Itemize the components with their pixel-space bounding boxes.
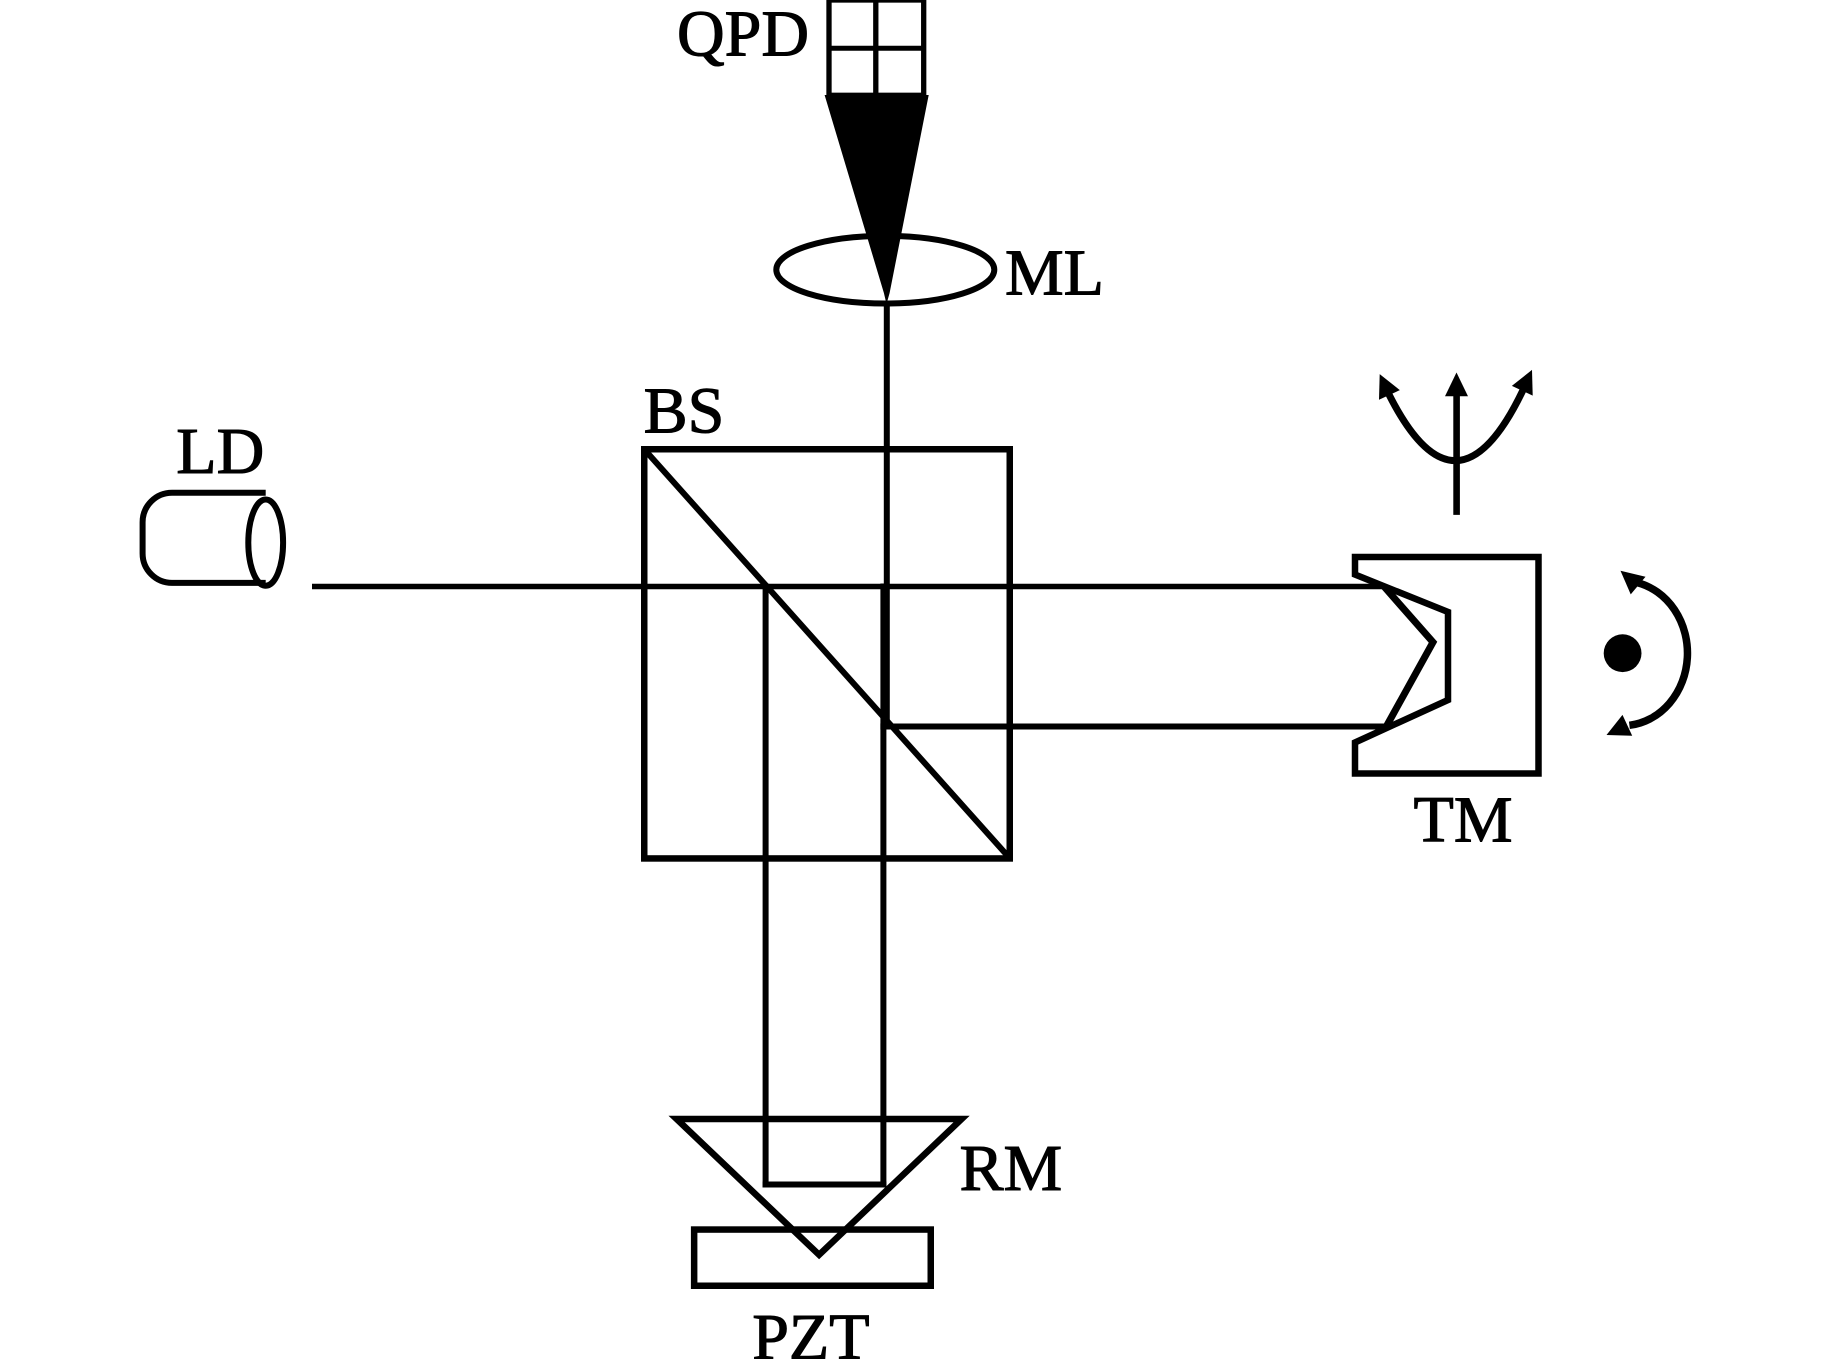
converging beam cone into QPD — [825, 95, 929, 304]
curved fork arrows above TM — [1389, 391, 1523, 461]
svg-text:LD: LD — [176, 415, 264, 488]
wire: left edge of downward beam (BS to RM) — [763, 584, 769, 1188]
QPD quadrant photodiode grid — [829, 0, 924, 95]
svg-text:RM: RM — [960, 1132, 1063, 1205]
rotation axis dot — [1604, 634, 1642, 672]
wire: lower edge of beam between BS and TM — [880, 724, 1388, 730]
svg-text:QPD: QPD — [677, 0, 809, 70]
PZT actuator block — [694, 1230, 931, 1286]
vertical arrow above TM — [1453, 394, 1460, 515]
LD cylinder end face ellipse — [248, 499, 283, 585]
wire: closing bottom edge of downward beam — [763, 1182, 887, 1188]
svg-text:ML: ML — [1005, 237, 1104, 310]
laser diode LD cylinder body — [143, 493, 266, 583]
beam splitter BS cube — [644, 449, 1010, 858]
wire: horizontal beam from LD through BS to TM (top edge) — [312, 584, 1386, 590]
wire: right edge of downward beam (BS to RM) — [880, 584, 886, 1188]
reference mirror RM triangle — [677, 1119, 962, 1255]
wire: vertical beam line ML to BS diagonal — [884, 302, 890, 726]
beam tip converging at TM mirror — [1384, 587, 1433, 727]
svg-text:PZT: PZT — [752, 1301, 869, 1359]
test mass TM body with concave mirror notch — [1355, 557, 1539, 774]
svg-text:TM: TM — [1414, 784, 1513, 857]
BS diagonal — [644, 449, 1010, 859]
svg-text:BS: BS — [644, 374, 725, 447]
lens ML ellipse — [776, 236, 994, 304]
rotation arc right of TM — [1629, 583, 1687, 726]
